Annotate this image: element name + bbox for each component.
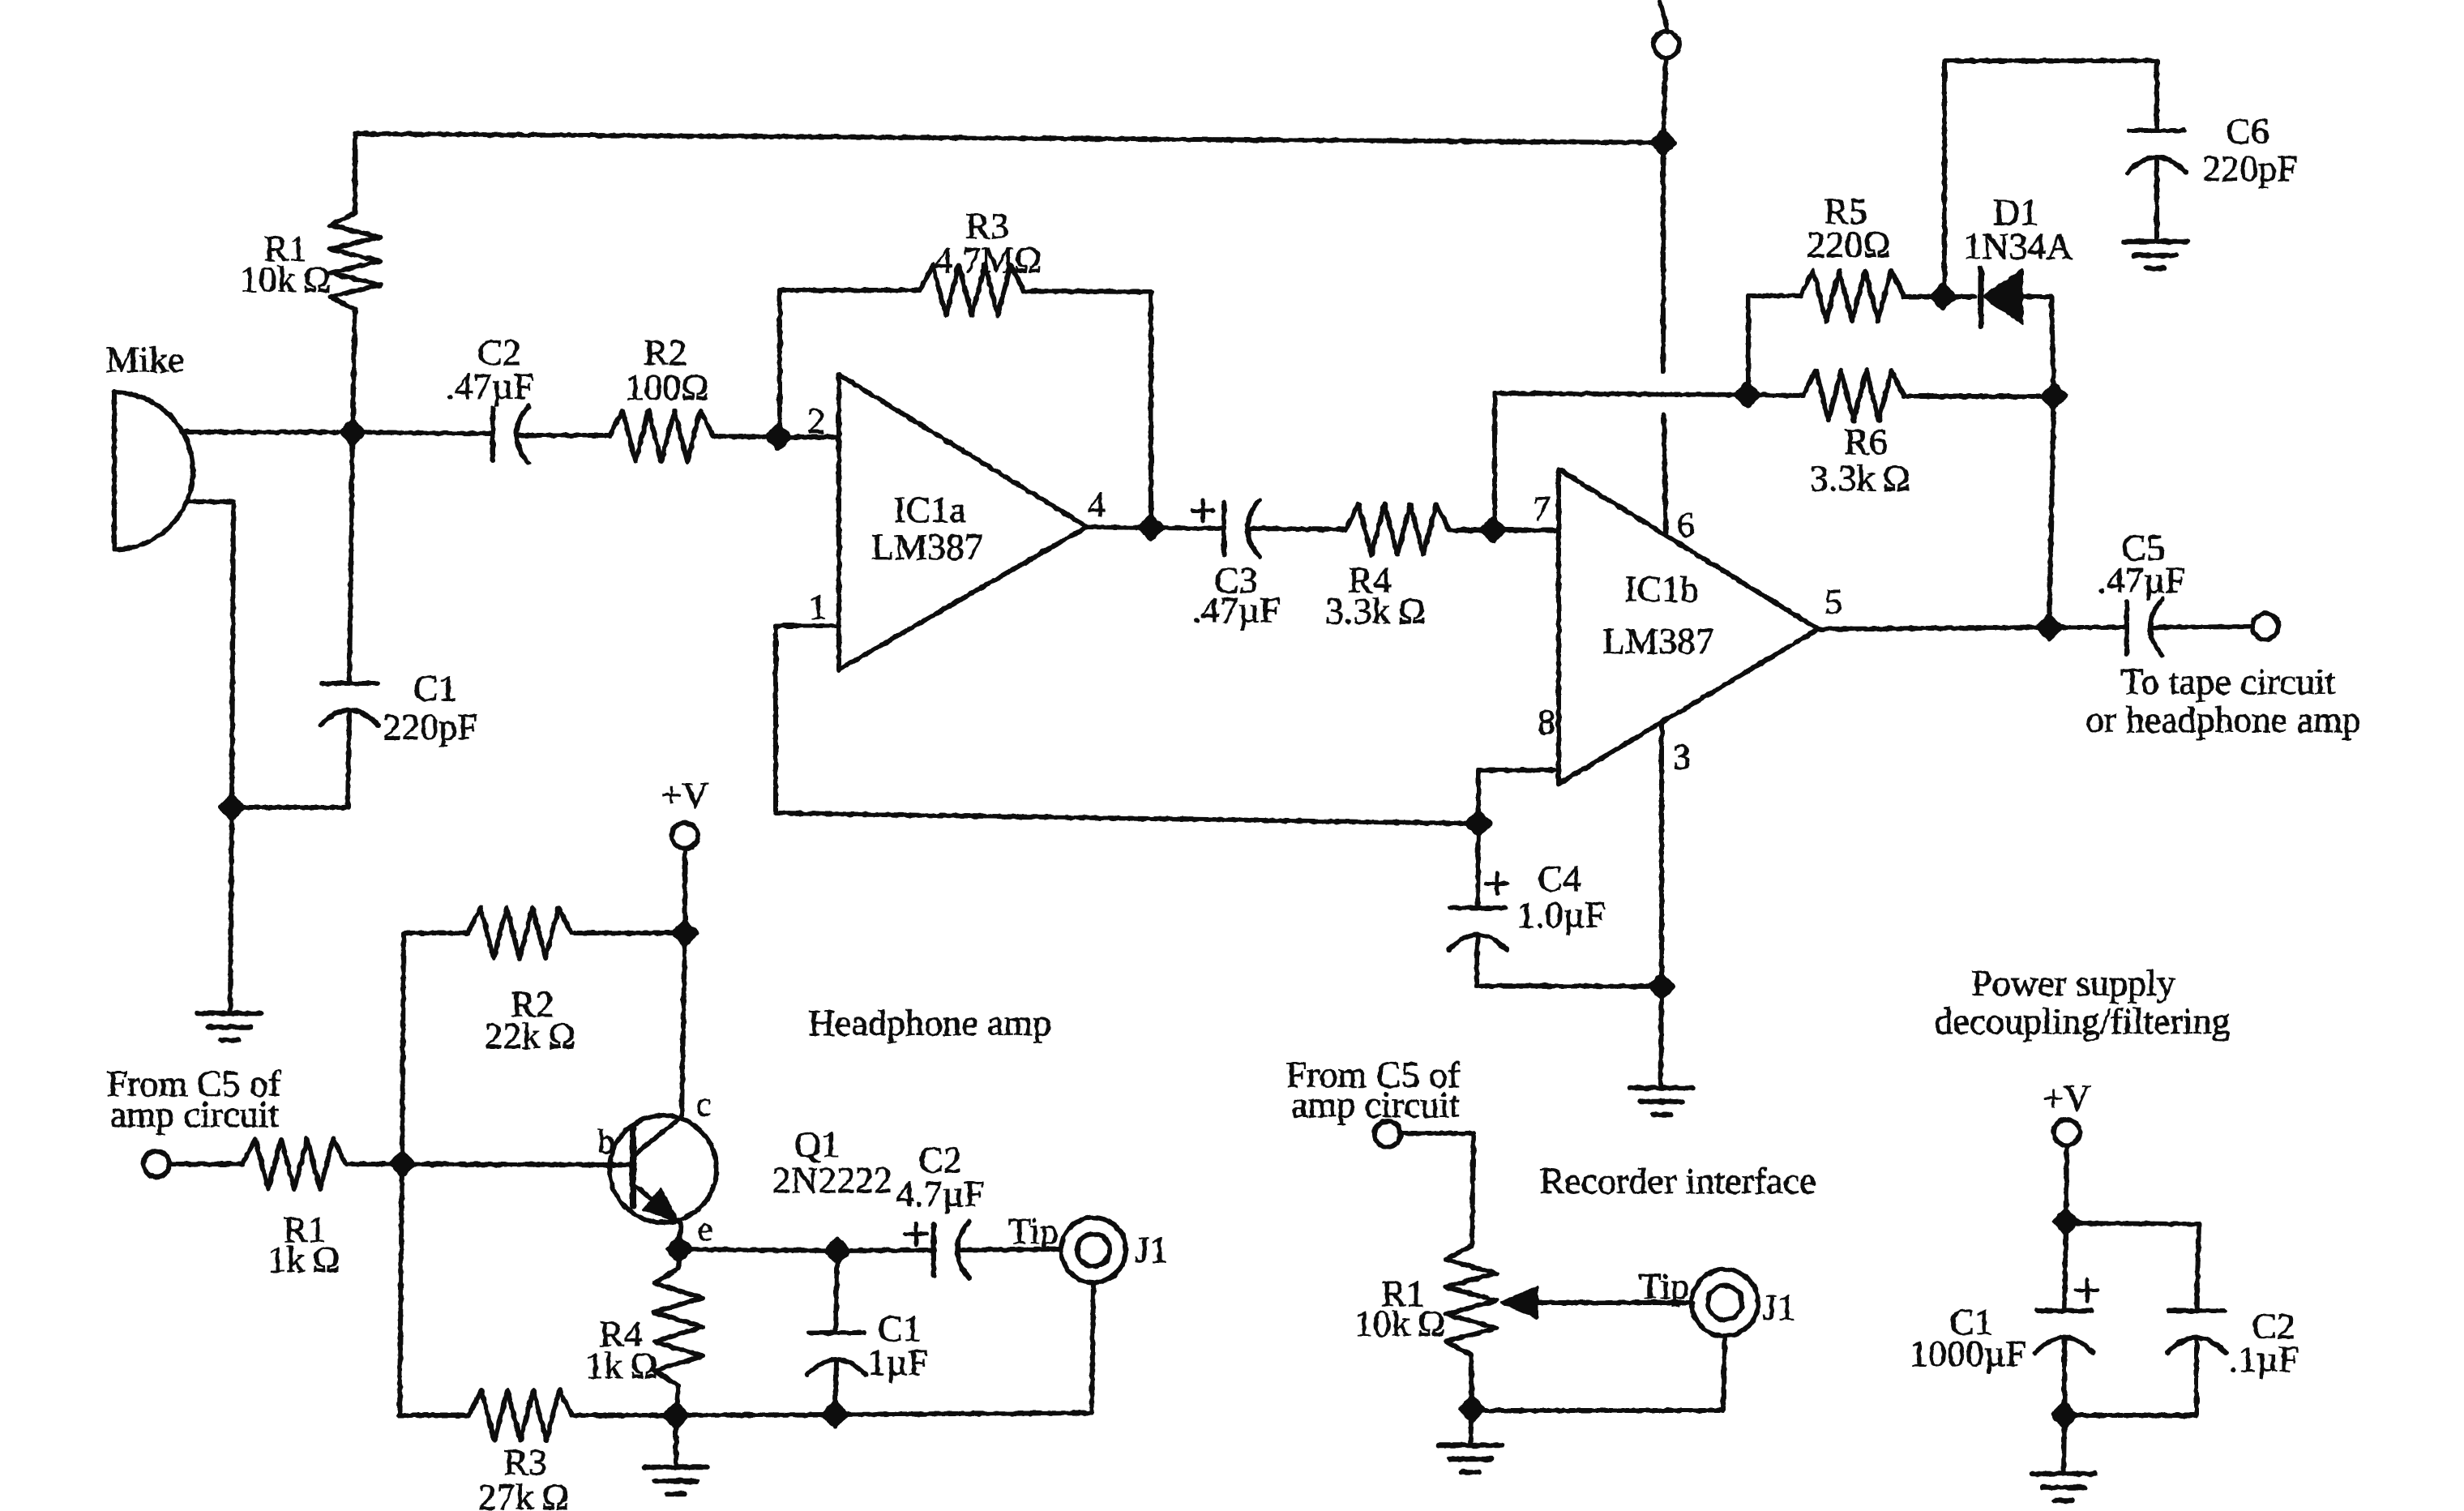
wire +V stem (hp)	[682, 849, 687, 933]
label C3	[1214, 559, 1258, 601]
junction C1 bottom node (hp)	[823, 1403, 846, 1426]
title decoupling/filtering	[1934, 1000, 2230, 1042]
value 4.7uF C2 (headphone)	[896, 1173, 985, 1214]
value 22kΩ R2 (headphone)	[485, 1015, 575, 1056]
svg-text:C1: C1	[413, 667, 457, 708]
svg-text:1000µF: 1000µF	[1910, 1333, 2026, 1374]
ground recorder interface	[1439, 1445, 1502, 1472]
wire IC1a output to C3	[1087, 527, 1224, 529]
label +V (headphone)	[661, 774, 708, 815]
svg-text:.1µF: .1µF	[2229, 1338, 2299, 1380]
label C4	[1538, 858, 1581, 899]
svg-text:To tape circuit: To tape circuit	[2121, 661, 2336, 702]
label D1	[1993, 191, 2038, 233]
terminal output to tape circuit	[2252, 614, 2278, 640]
pin 6 label IC1b	[1677, 505, 1695, 545]
wire C1 stem (hp)	[836, 1251, 837, 1333]
wire R6 row left	[1495, 393, 1747, 395]
label R6	[1844, 421, 1888, 462]
value .47uF C3	[1191, 589, 1281, 631]
label C1 (power supply)	[1949, 1301, 1993, 1342]
svg-text:8: 8	[1538, 702, 1555, 742]
value 4.7MΩ R3	[935, 239, 1042, 280]
wire node A down to C1	[349, 432, 353, 683]
resistor R4 3.3k (main)	[1345, 504, 1449, 554]
wire input to pot (recorder)	[1401, 1133, 1474, 1246]
value .47uF C2	[445, 366, 534, 407]
wire J1 return (recorder)	[1472, 1336, 1725, 1410]
wire R2 to +V node (hp)	[571, 931, 685, 935]
title Recorder interface	[1540, 1160, 1816, 1201]
wire base (hp)	[402, 1164, 633, 1165]
wire output node to C5	[2049, 625, 2127, 630]
terminal +V (headphone amp)	[672, 823, 698, 849]
value .47uF C5	[2097, 559, 2186, 601]
wire R3 to right corner	[1024, 291, 1151, 292]
svg-text:J1: J1	[1136, 1229, 1169, 1270]
potentiometer R1 10k (recorder)	[1446, 1246, 1496, 1355]
svg-text:3: 3	[1673, 737, 1691, 777]
capacitor C4 1.0uF	[1448, 908, 1507, 950]
svg-text:10k Ω: 10k Ω	[240, 259, 331, 300]
wire C6 top stem	[2154, 61, 2159, 131]
svg-text:.47µF: .47µF	[2097, 559, 2186, 601]
terminal input (recorder)	[1375, 1121, 1401, 1147]
wire R4 to pin7 node	[1449, 528, 1493, 533]
op-amp IC1a LM387 triangle	[839, 375, 1087, 670]
junction R4/ground node (hp)	[665, 1404, 687, 1427]
op-amp IC1b LM387 triangle	[1559, 469, 1818, 784]
wire pin 1 stub	[776, 623, 839, 628]
wire base node up to R2 (hp)	[402, 933, 404, 1164]
label C2 (main)	[477, 332, 521, 373]
svg-text:1.0µF: 1.0µF	[1516, 894, 1606, 935]
label C5	[2121, 527, 2165, 568]
wire R2 to pin2 node	[713, 436, 778, 437]
junction pot bottom node (recorder)	[1461, 1398, 1483, 1420]
wire pin3 to ground	[1659, 722, 1664, 987]
polarity + of C1 (ps)	[2077, 1280, 2098, 1301]
wire R4 top stem (hp)	[678, 1249, 679, 1269]
pin 5 label IC1b	[1824, 582, 1842, 622]
value 1000uF C1	[1910, 1333, 2026, 1374]
wire feedback top left to R3	[780, 288, 920, 293]
label C2 (power supply)	[2252, 1305, 2295, 1346]
label R1	[263, 228, 307, 269]
svg-text:+V: +V	[661, 774, 708, 815]
value 3.3kΩ R6	[1810, 457, 1910, 499]
capacitor C1 220pF (main)	[320, 683, 379, 726]
wire R1 to base node (hp)	[346, 1162, 402, 1166]
wire D1 anode stub	[1943, 294, 1975, 299]
wire R4 bottom stem (hp)	[676, 1385, 678, 1415]
value 220pF C6	[2202, 148, 2298, 189]
label R4 (main)	[1348, 559, 1392, 601]
wire feedback down to output node	[2049, 396, 2054, 627]
capacitor C2 .47uF (main)	[493, 406, 528, 463]
svg-text:220pF: 220pF	[2202, 148, 2298, 189]
svg-text:6: 6	[1677, 505, 1695, 545]
note To tape circuit	[2121, 661, 2336, 702]
value 1kΩ R4 (headphone)	[585, 1345, 657, 1386]
svg-text:.47µF: .47µF	[445, 366, 534, 407]
wiper arrow of R1 pot	[1502, 1288, 1537, 1317]
resistor R3 27k (headphone)	[468, 1390, 572, 1440]
wire C1 lower stem	[348, 712, 349, 807]
label R2 (main)	[644, 332, 687, 373]
capacitor C2 .1uF (power supply)	[2167, 1311, 2226, 1353]
diode D1 1N34A	[1981, 268, 2021, 326]
wire node A to C2	[353, 432, 493, 434]
wire C2 to J1 (hp)	[960, 1249, 1061, 1250]
svg-text:1k Ω: 1k Ω	[585, 1345, 657, 1386]
svg-text:2: 2	[807, 401, 825, 441]
wire C3 to R4	[1248, 529, 1345, 529]
wire wiper to J1 (recorder)	[1537, 1300, 1693, 1305]
note amp circuit (headphone)	[110, 1094, 279, 1135]
svg-text:amp circuit: amp circuit	[110, 1094, 279, 1135]
capacitor C1 .1uF (headphone)	[807, 1333, 866, 1375]
wire C6 branch top	[1944, 58, 2157, 63]
label Tip (headphone)	[1008, 1210, 1059, 1252]
junction R5/D1/C6 node	[1931, 285, 1954, 308]
svg-text:3.3k Ω: 3.3k Ω	[1325, 590, 1426, 631]
svg-text:4.7µF: 4.7µF	[896, 1173, 985, 1214]
wire C1 bottom stem (ps)	[2062, 1339, 2067, 1415]
pin b label Q1	[598, 1124, 615, 1161]
ground C6	[2124, 242, 2187, 268]
svg-text:.47µF: .47µF	[1191, 589, 1281, 631]
junction emitter node (hp)	[668, 1238, 691, 1261]
wire feedback up from pin2	[777, 290, 782, 437]
wire top +V rail	[355, 134, 1663, 143]
label J1 (recorder)	[1763, 1286, 1796, 1328]
wire mike ground stem	[230, 807, 232, 1013]
wire ground stem (recorder)	[1470, 1409, 1472, 1445]
label LM387 (IC1a)	[871, 526, 983, 567]
resistor R2 100 ohm (main)	[610, 411, 713, 461]
transistor Q1 2N2222	[610, 1115, 717, 1223]
wire R1 bottom to input node	[353, 309, 355, 432]
polarity + of C4	[1487, 873, 1508, 894]
resistor R1 1k (headphone)	[242, 1139, 346, 1189]
wire +V stem (ps)	[2066, 1145, 2067, 1222]
label R1 (headphone)	[283, 1209, 327, 1250]
resistor R1 10k (main amp)	[330, 213, 380, 309]
junction +V node (ps)	[2055, 1210, 2077, 1233]
wire mike output to node A	[182, 430, 353, 434]
svg-text:Mike: Mike	[105, 339, 184, 380]
svg-text:27k Ω: 27k Ω	[478, 1476, 569, 1511]
wire pin 2 stub	[778, 434, 839, 439]
svg-text:10k Ω: 10k Ω	[1354, 1303, 1445, 1344]
resistor R6 3.3k	[1803, 370, 1904, 421]
wire pin6 upper segment (crossover break)	[1661, 143, 1666, 371]
note amp circuit (recorder)	[1291, 1084, 1460, 1125]
wire R3 left stub (hp)	[400, 1413, 468, 1418]
wire emitter drop (hp)	[679, 1223, 681, 1249]
wire pin1 vertical down	[773, 626, 778, 813]
label C1 (headphone)	[878, 1308, 922, 1349]
svg-text:C4: C4	[1538, 858, 1581, 899]
junction base node (hp)	[391, 1153, 413, 1175]
wire D1 cathode to corner	[2021, 294, 2051, 299]
label R2 (headphone)	[511, 983, 554, 1025]
note From C5 of (recorder)	[1286, 1054, 1461, 1095]
svg-text:LM387: LM387	[1602, 620, 1714, 661]
capacitor C5 .47uF (output)	[2127, 599, 2162, 656]
wire J1 return (hp)	[1092, 1282, 1093, 1413]
label C6	[2226, 110, 2269, 152]
wire +V lead off page	[1660, 2, 1668, 32]
wire R3 to ground node (hp)	[572, 1413, 676, 1418]
ground mike input	[198, 1013, 261, 1040]
note or headphone amp	[2085, 699, 2361, 740]
value 10kΩ R1 (recorder)	[1354, 1303, 1445, 1344]
value 27kΩ R3 (headphone)	[478, 1476, 569, 1511]
wire R6 left stub	[1747, 395, 1803, 396]
svg-text:1: 1	[809, 587, 827, 627]
wire feedback down to output	[1149, 292, 1153, 528]
svg-text:e: e	[698, 1211, 713, 1248]
svg-text:C6: C6	[2226, 110, 2269, 152]
capacitor C3 .47uF (coupling)	[1224, 500, 1260, 557]
junction C1 top node (hp)	[826, 1239, 849, 1262]
wire branch to C2 (ps)	[2066, 1223, 2199, 1311]
pin 7 label IC1b	[1533, 489, 1551, 529]
polarity + of C2 (hp)	[905, 1223, 926, 1244]
label R1 (recorder)	[1381, 1273, 1425, 1314]
svg-text:1k Ω: 1k Ω	[267, 1239, 340, 1280]
pin c label Q1	[696, 1086, 712, 1124]
wire C4 top stem	[1478, 824, 1478, 908]
capacitor C1 1000uF (power supply)	[2035, 1311, 2094, 1353]
svg-text:220pF: 220pF	[383, 706, 478, 747]
svg-text:4: 4	[1088, 485, 1106, 524]
svg-text:c: c	[696, 1086, 712, 1124]
value 10kΩ R1	[240, 259, 331, 300]
junction R3/output node	[1140, 516, 1162, 539]
wire collector riser (hp)	[682, 933, 685, 1117]
svg-text:Tip: Tip	[1008, 1210, 1059, 1252]
wire R1 top feed	[353, 134, 357, 213]
ground headphone amp	[644, 1467, 708, 1494]
junction R6 right node	[2043, 385, 2065, 408]
label +V (power supply)	[2043, 1077, 2090, 1119]
wire C1 node to C2 (hp)	[837, 1250, 934, 1251]
svg-text:Headphone amp: Headphone amp	[808, 1002, 1051, 1043]
wire D1 corner down to R6 right	[2051, 297, 2054, 396]
wire C1 bottom to mike ground node	[232, 805, 348, 810]
svg-text:2N2222: 2N2222	[772, 1159, 892, 1201]
pin 2 label IC1a	[807, 401, 825, 441]
svg-text:IC1b: IC1b	[1624, 568, 1699, 610]
wire mike lower terminal	[186, 502, 233, 807]
svg-text:4.7MΩ: 4.7MΩ	[935, 239, 1042, 280]
label R3 (headphone)	[503, 1441, 547, 1483]
resistor R4 1k (headphone)	[654, 1269, 703, 1385]
title Power supply	[1971, 962, 2175, 1004]
wire ground stem (hp)	[674, 1415, 678, 1467]
svg-text:decoupling/filtering: decoupling/filtering	[1934, 1000, 2230, 1042]
junction pin2 node	[767, 426, 789, 448]
svg-text:or headphone amp: or headphone amp	[2085, 699, 2361, 740]
junction +V rail node	[1652, 131, 1675, 154]
svg-text:b: b	[598, 1124, 615, 1161]
wire bottom row to J1 (hp)	[835, 1413, 1092, 1415]
pin 8 label IC1b	[1538, 702, 1555, 742]
capacitor C2 4.7uF (headphone)	[934, 1222, 969, 1278]
jack J1 (headphone)	[1061, 1218, 1126, 1282]
svg-text:IC1a: IC1a	[893, 489, 965, 530]
junction pin3/C4 node	[1650, 975, 1673, 998]
svg-text:Power supply: Power supply	[1971, 962, 2175, 1004]
svg-text:.1µF: .1µF	[858, 1342, 929, 1383]
wire R5 left stub	[1748, 293, 1800, 298]
value 3.3kΩ R4	[1325, 590, 1426, 631]
svg-text:220Ω: 220Ω	[1807, 224, 1890, 265]
resistor R2 22k (headphone)	[468, 908, 571, 958]
capacitor C6 220pF	[2128, 131, 2186, 173]
terminal +V (main amp)	[1653, 32, 1679, 58]
svg-text:R6: R6	[1844, 421, 1888, 462]
wire C1 bottom stem (hp)	[835, 1362, 836, 1415]
svg-text:100Ω: 100Ω	[625, 366, 708, 408]
value 2N2222 Q1	[772, 1159, 892, 1201]
wire R2 left stub (hp)	[404, 931, 468, 935]
wire pin 8 stub	[1478, 770, 1559, 824]
label Mike	[105, 339, 184, 380]
junction pin7 node	[1482, 519, 1504, 541]
wire bottom row (hp)	[676, 1415, 835, 1415]
junction node A (mike/R1/C1/C2)	[341, 421, 364, 443]
junction pin8/pin1/C4 node	[1467, 812, 1490, 835]
label R3	[965, 205, 1009, 246]
svg-text:amp circuit: amp circuit	[1291, 1084, 1460, 1125]
wire pin1 long run to pin8 node	[776, 813, 1478, 824]
label R5	[1824, 190, 1867, 232]
junction +V/collector node (hp)	[674, 922, 696, 944]
wire emitter row to C1 node (hp)	[679, 1249, 837, 1251]
wire pin6 lower segment to IC1b	[1664, 415, 1666, 535]
wire pot bottom stem (recorder)	[1471, 1355, 1472, 1409]
pin 4 label IC1a	[1088, 485, 1106, 524]
pin 3 label IC1b	[1673, 737, 1691, 777]
label R4 (headphone)	[599, 1313, 643, 1355]
label IC1b	[1624, 568, 1699, 610]
pin e label Q1	[698, 1211, 713, 1248]
wire C1 top stem (ps)	[2064, 1222, 2066, 1311]
ground IC1b pin3	[1630, 1088, 1693, 1115]
label Tip (recorder)	[1639, 1265, 1689, 1307]
svg-text:3.3k Ω: 3.3k Ω	[1810, 457, 1910, 499]
value 1N34A D1	[1963, 225, 2073, 267]
resistor R3 4.7M (feedback IC1a)	[920, 265, 1024, 315]
wire R5 to D1 node	[1904, 294, 1943, 299]
resistor R5 220 ohm	[1800, 271, 1904, 321]
microphone Mike symbol	[114, 392, 193, 550]
wire pin3 ground stem	[1661, 987, 1662, 1088]
svg-text:Tip: Tip	[1639, 1265, 1689, 1307]
svg-text:22k Ω: 22k Ω	[485, 1015, 575, 1056]
junction output/C5 node	[2038, 616, 2060, 639]
polarity + of C3	[1192, 500, 1213, 521]
wire pin7 feedback riser	[1492, 393, 1497, 530]
value 1kΩ R1 (headphone)	[267, 1239, 340, 1280]
pin 1 label IC1a	[809, 587, 827, 627]
wire C2 bottom to ground node (ps)	[2064, 1339, 2197, 1415]
wire input to R1 (hp)	[169, 1162, 242, 1166]
note From C5 of (headphone)	[107, 1063, 281, 1104]
junction R6 left node	[1736, 383, 1759, 406]
wire R5 branch riser	[1746, 296, 1751, 395]
value .1uF C2 (ps)	[2229, 1338, 2299, 1380]
wire base node down to R3 (hp)	[400, 1164, 402, 1415]
label Q1	[794, 1124, 840, 1165]
wire ground stem (ps)	[2064, 1415, 2064, 1474]
value 220Ω R5	[1807, 224, 1890, 265]
ground power supply	[2032, 1474, 2095, 1500]
junction ground node (ps)	[2053, 1404, 2076, 1427]
wire pin 7 stub	[1493, 528, 1559, 533]
label C2 (headphone)	[918, 1139, 962, 1180]
wire C4 bottom to pin3 node	[1477, 936, 1662, 987]
junction mike ground node	[220, 796, 243, 819]
label J1 (headphone)	[1136, 1229, 1169, 1270]
value 220pF C1	[383, 706, 478, 747]
wire C6 ground stem	[2154, 159, 2159, 242]
svg-text:Recorder interface: Recorder interface	[1540, 1160, 1816, 1201]
wire +V terminal stem	[1663, 58, 1666, 143]
label LM387 (IC1b)	[1602, 620, 1714, 661]
jack J1 (recorder)	[1692, 1269, 1758, 1336]
svg-text:J1: J1	[1763, 1286, 1796, 1328]
wire C6 branch riser	[1942, 61, 1947, 297]
value 100Ω R2	[625, 366, 708, 408]
svg-text:7: 7	[1533, 489, 1551, 529]
svg-text:1N34A: 1N34A	[1963, 225, 2073, 267]
svg-text:5: 5	[1824, 582, 1842, 622]
wire IC1b output	[1818, 627, 2049, 629]
svg-text:LM387: LM387	[871, 526, 983, 567]
svg-text:+V: +V	[2043, 1077, 2090, 1119]
terminal +V (power supply)	[2054, 1119, 2080, 1145]
wire C2 to R2	[519, 433, 610, 438]
terminal input (headphone amp)	[143, 1151, 169, 1177]
title Headphone amp	[808, 1002, 1051, 1043]
value .1uF C1 (headphone)	[858, 1342, 929, 1383]
wire C5 to output terminal	[2153, 627, 2252, 627]
label IC1a	[893, 489, 965, 530]
wire R6 right	[1904, 394, 2054, 399]
label C1 (main)	[413, 667, 457, 708]
value 1.0uF C4	[1516, 894, 1606, 935]
